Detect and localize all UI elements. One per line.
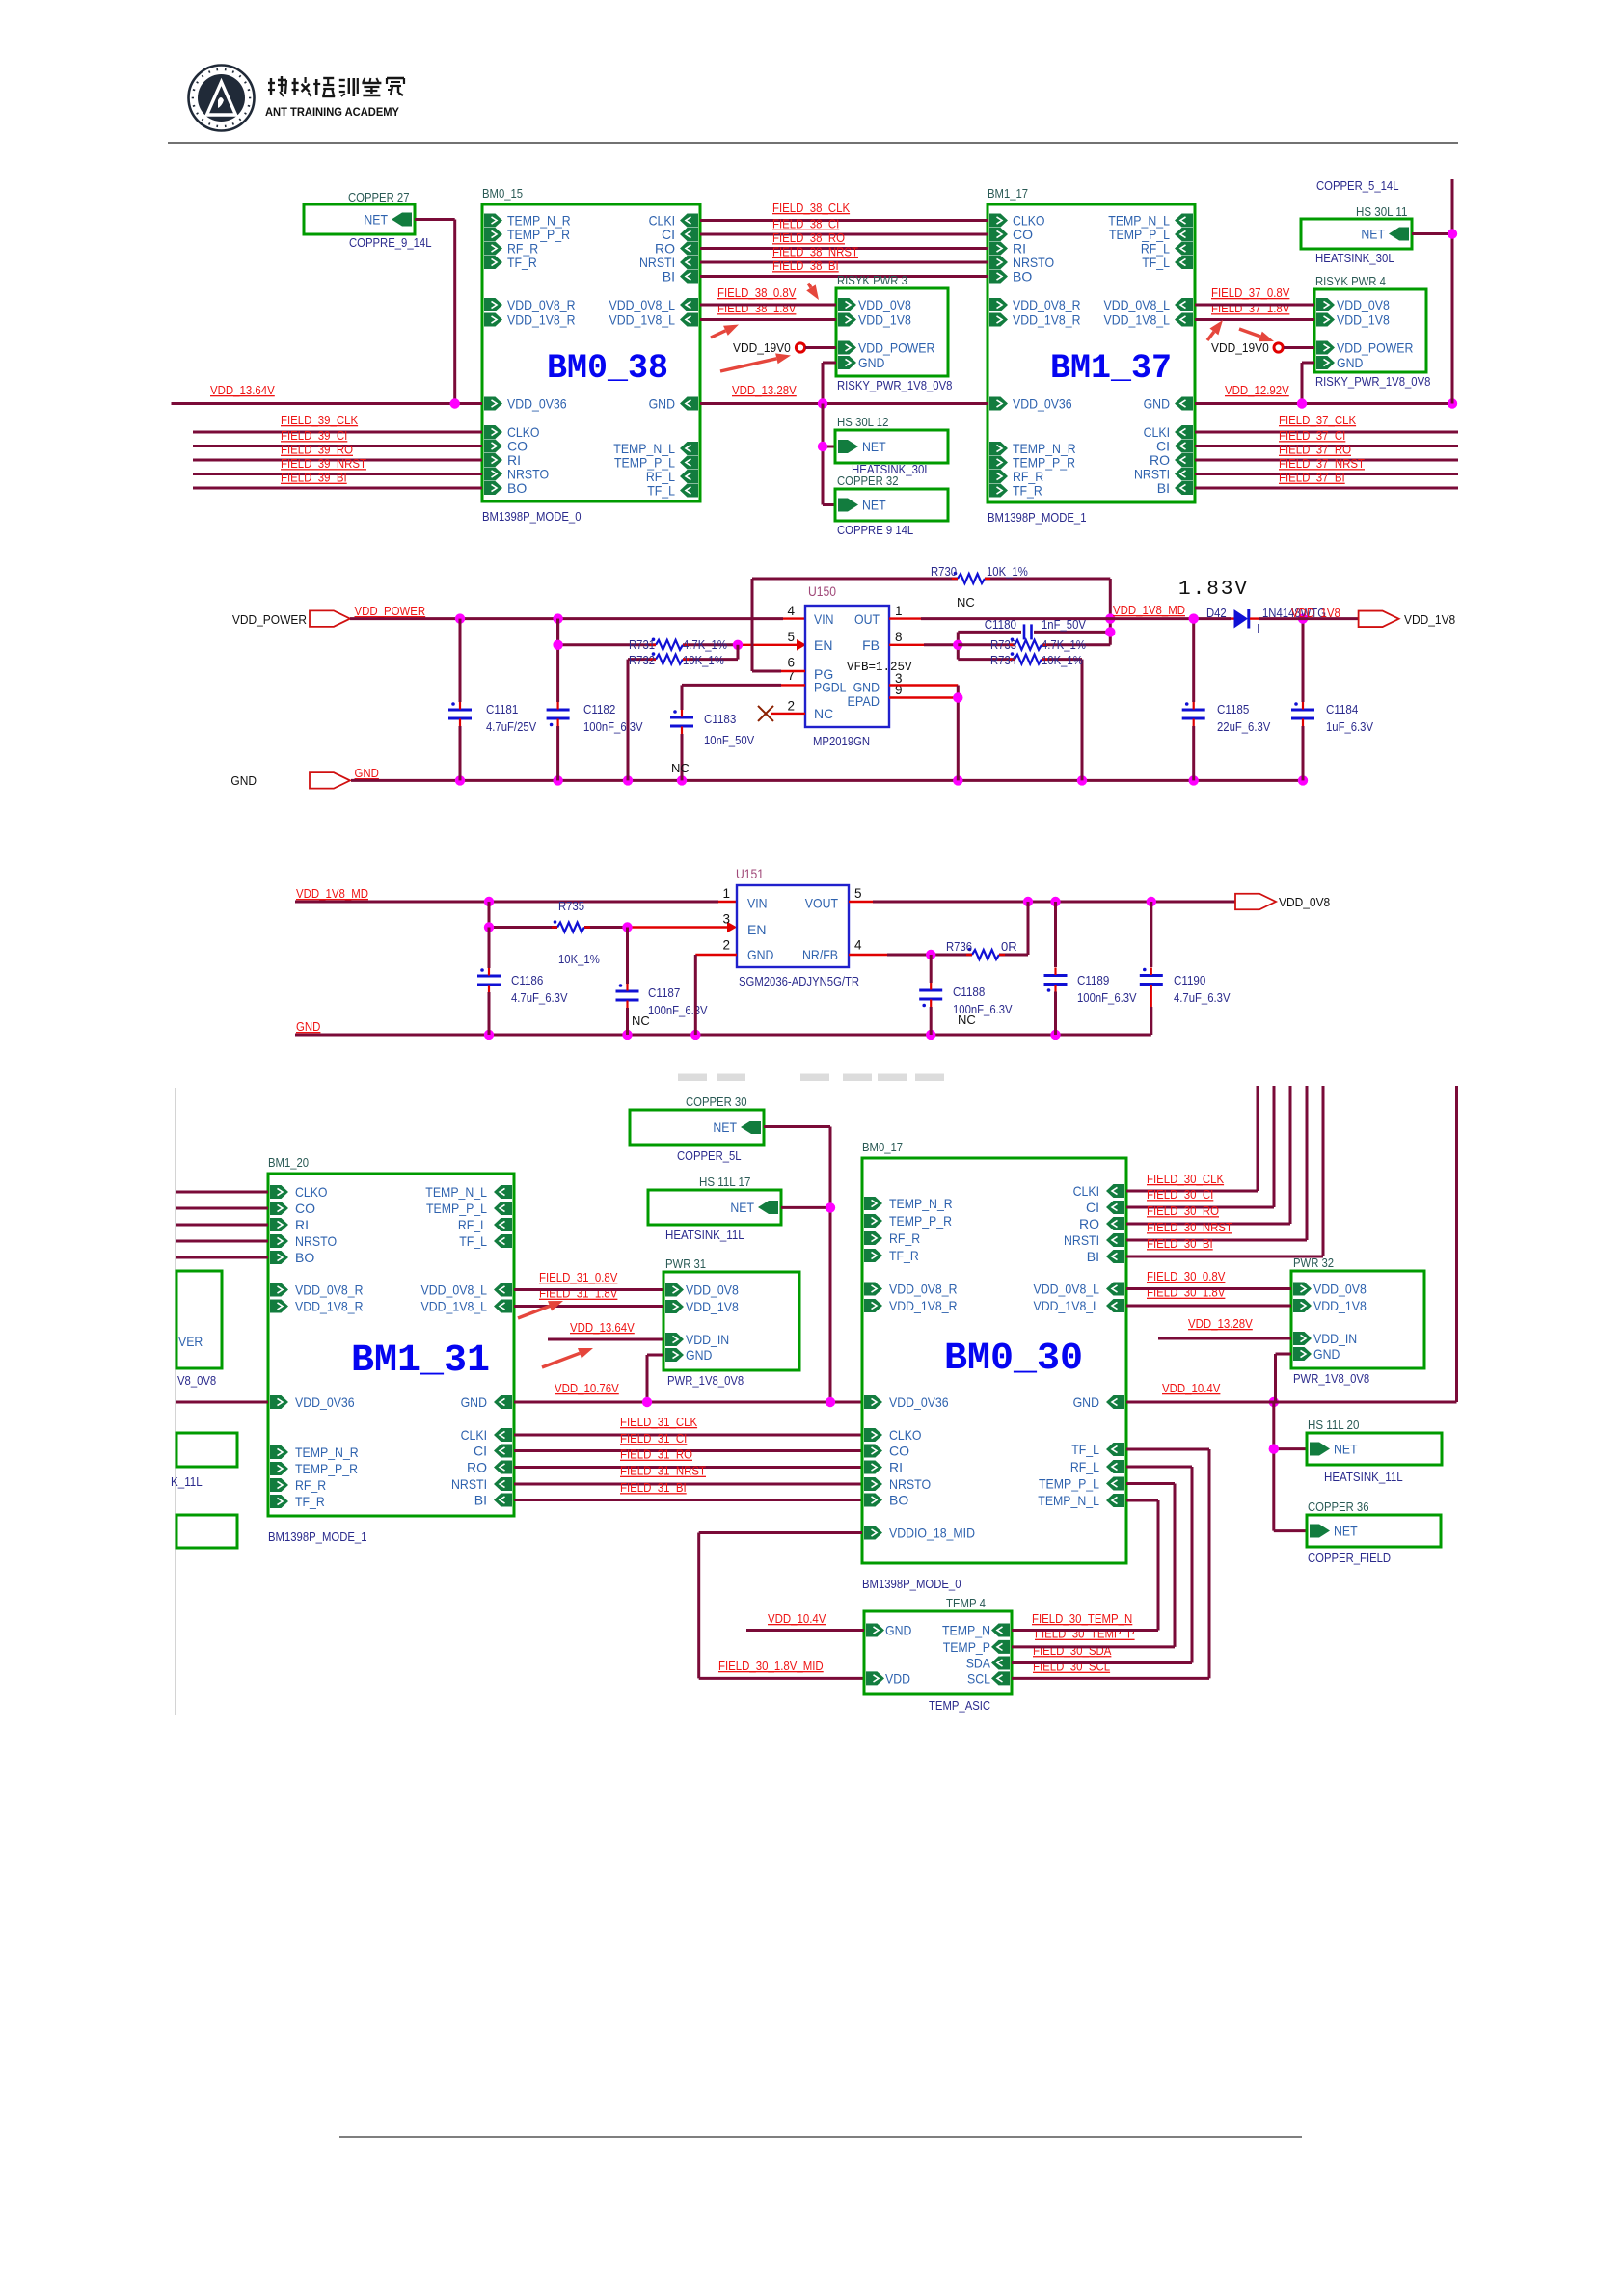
net label FIELD_38_CI	[772, 217, 839, 231]
capacitor C1180 1nF_50V	[958, 617, 1110, 639]
svg-text:1nF_50V: 1nF_50V	[1042, 617, 1086, 632]
svg-text:TEMP_N_L: TEMP_N_L	[425, 1184, 487, 1200]
svg-text:RISKY_PWR_1V8_0V8: RISKY_PWR_1V8_0V8	[837, 378, 952, 392]
net label FIELD_37_CI	[1279, 428, 1345, 443]
svg-text:FIELD_38_RO: FIELD_38_RO	[772, 230, 845, 245]
svg-text:C1187: C1187	[648, 986, 680, 1000]
label COPPER 27	[348, 190, 410, 204]
svg-text:BM1398P_MODE_1: BM1398P_MODE_1	[988, 510, 1087, 525]
svg-text:VDD: VDD	[885, 1671, 910, 1687]
wire FIELD_30_0.8V	[1126, 1287, 1291, 1290]
svg-text:TF_L: TF_L	[1142, 255, 1170, 270]
net label GND	[296, 1019, 320, 1034]
resistor R732 10K_1%	[628, 645, 738, 781]
svg-text:NC: NC	[814, 706, 833, 721]
wire FIELD_30 bus	[1126, 1086, 1307, 1240]
annotation arrow	[518, 1301, 563, 1318]
svg-text:NET: NET	[713, 1120, 737, 1135]
svg-text:HEATSINK_11L: HEATSINK_11L	[1324, 1470, 1403, 1484]
svg-text:VDD_1V8_L: VDD_1V8_L	[1104, 312, 1171, 328]
net label FIELD_39_BI	[281, 471, 347, 485]
wire FIELD_38 bus	[700, 247, 988, 250]
label BM0_15	[482, 186, 523, 201]
svg-text:COPPRE 9 14L: COPPRE 9 14L	[837, 523, 913, 537]
junction	[953, 692, 962, 702]
svg-text:C1181: C1181	[486, 702, 518, 716]
svg-text:VDD_POWER: VDD_POWER	[1337, 340, 1413, 356]
EN input arrow	[727, 922, 737, 933]
svg-text:VDD_IN: VDD_IN	[1313, 1331, 1357, 1346]
svg-text:FIELD_30_CLK: FIELD_30_CLK	[1147, 1172, 1224, 1186]
junction	[455, 775, 465, 785]
connector COPPER_30 (COPPER_5L)	[630, 1110, 764, 1145]
capacitor C1186 4.7uF_6.3V	[477, 928, 568, 1036]
net label FIELD_39_NRST	[281, 456, 366, 471]
label PWR 31	[665, 1256, 706, 1271]
net label VDD_12.92V	[1225, 383, 1289, 397]
BM1_37 pins CLKI/CI/RO/NRSTI/BI	[1134, 424, 1193, 496]
svg-text:NRSTI: NRSTI	[1064, 1232, 1099, 1248]
regulator U150 MP2019GN	[805, 584, 912, 727]
svg-text:HS 30L 12: HS 30L 12	[837, 415, 888, 429]
text BM0_38	[547, 349, 668, 388]
svg-text:VDD_0V36: VDD_0V36	[1013, 396, 1072, 412]
svg-text:VIN: VIN	[814, 611, 834, 627]
svg-text:RI: RI	[295, 1217, 309, 1232]
svg-text:FIELD_30_TEMP_N: FIELD_30_TEMP_N	[1032, 1611, 1132, 1626]
BM1_31 pins VDD_0V8_R/VDD_1V8_R	[270, 1283, 364, 1314]
capacitor C1185 22uF_6.3V	[1182, 619, 1271, 781]
wire FIELD_31_1.8V	[514, 1305, 663, 1308]
svg-text:VDD_13.28V: VDD_13.28V	[1188, 1316, 1253, 1331]
label HS 30L 12	[837, 415, 888, 429]
annotation arrow	[1239, 329, 1274, 341]
svg-text:PWR_1V8_0V8: PWR_1V8_0V8	[1293, 1371, 1369, 1386]
junction	[677, 775, 687, 785]
svg-text:VOUT: VOUT	[805, 896, 839, 911]
junction	[1147, 897, 1156, 906]
svg-text:SCL: SCL	[967, 1670, 990, 1686]
svg-text:C1188: C1188	[953, 985, 985, 999]
junction	[926, 1030, 935, 1040]
wire FIELD_39 bus	[193, 459, 482, 462]
svg-text:CI: CI	[1086, 1200, 1099, 1215]
svg-text:VDD_0V36: VDD_0V36	[889, 1394, 949, 1410]
svg-text:NET: NET	[862, 498, 886, 513]
diode D42 1N4148WTG	[1206, 606, 1326, 635]
svg-text:EN: EN	[814, 637, 832, 653]
svg-text:GND: GND	[296, 1019, 320, 1034]
svg-text:FIELD_31_BI: FIELD_31_BI	[620, 1480, 687, 1495]
BM0_38 pin VDD_0V36	[484, 396, 567, 412]
svg-text:VDD_0V8: VDD_0V8	[1279, 895, 1330, 909]
svg-text:BO: BO	[889, 1493, 908, 1508]
svg-text:VDD_1V8_R: VDD_1V8_R	[1013, 312, 1081, 328]
svg-text:SGM2036-ADJYN5G/TR: SGM2036-ADJYN5G/TR	[739, 974, 859, 988]
wire OUT net	[889, 617, 1231, 619]
BM0_30 pins CLKI/CI/RO/NRSTI/BI	[1064, 1183, 1124, 1264]
wire PWR_32 GND	[1276, 1354, 1292, 1402]
net label VDD_13.64V	[570, 1320, 635, 1335]
wire FIELD_37_0.8V	[1195, 304, 1314, 307]
svg-text:FIELD_30_SDA: FIELD_30_SDA	[1033, 1643, 1112, 1658]
svg-text:BM0_38: BM0_38	[547, 349, 668, 388]
BM1_31 pin VDD_0V36	[270, 1394, 355, 1410]
svg-text:VDD_POWER: VDD_POWER	[355, 604, 426, 618]
junction	[953, 640, 962, 650]
BM1_31 pins TEMP_N_L/TEMP_P_L/RF_L/TF_L	[425, 1184, 512, 1249]
label TEMP 4	[946, 1596, 986, 1610]
junction	[826, 1202, 835, 1212]
BM0_38 pin GND	[649, 396, 698, 412]
resistor R733 4.7K_1%	[958, 637, 1110, 652]
svg-text:VDD_POWER: VDD_POWER	[232, 612, 307, 627]
junction	[818, 442, 827, 451]
label BM1398P_MODE_1	[988, 510, 1087, 525]
svg-text:CO: CO	[889, 1444, 909, 1459]
BM0_30 pins TF_L/RF_L/TEMP_P_L/TEMP_N_L	[1038, 1442, 1124, 1508]
wire to HS_11L_20/COPPER_36	[1274, 1402, 1307, 1531]
net label FIELD_39_CI	[281, 428, 347, 443]
wire FIELD_38 bus	[700, 275, 988, 278]
wire FIELD_38 bus	[700, 219, 988, 222]
svg-text:BM1_37: BM1_37	[1050, 349, 1172, 388]
junction	[733, 640, 743, 650]
svg-text:TF_R: TF_R	[295, 1494, 325, 1509]
svg-text:FIELD_30_TEMP_P: FIELD_30_TEMP_P	[1035, 1627, 1135, 1641]
svg-text:TF_R: TF_R	[507, 255, 537, 270]
svg-text:GND: GND	[686, 1347, 712, 1363]
junction	[953, 775, 962, 785]
svg-text:BM1398P_MODE_0: BM1398P_MODE_0	[482, 509, 582, 524]
label BM1398P_MODE_1	[268, 1529, 367, 1544]
junction	[484, 1030, 494, 1040]
net label FIELD_30_BI	[1147, 1236, 1213, 1251]
svg-text:U151: U151	[736, 867, 764, 881]
junction	[1189, 613, 1199, 623]
svg-text:VER: VER	[178, 1334, 203, 1349]
BM1_31 pins VDD_0V8_L/VDD_1V8_L	[421, 1283, 513, 1314]
svg-text:GND: GND	[885, 1623, 911, 1638]
label RISYK PWR 3	[837, 273, 907, 287]
logo ANT Training Academy seal	[189, 66, 255, 131]
svg-text:VDD_1V8_L: VDD_1V8_L	[609, 312, 676, 328]
svg-text:GND: GND	[1144, 396, 1170, 412]
svg-text:HEATSINK_30L: HEATSINK_30L	[1315, 251, 1394, 265]
svg-text:FIELD_38_1.8V: FIELD_38_1.8V	[717, 301, 797, 315]
svg-text:TEMP_ASIC: TEMP_ASIC	[929, 1698, 990, 1713]
net label FIELD_31_RO	[620, 1447, 692, 1462]
svg-text:RF_L: RF_L	[1070, 1459, 1099, 1474]
wire FIELD_38_1.8V	[700, 318, 836, 321]
wire VDD_19V0 to VDD_POWER	[1284, 346, 1314, 349]
svg-text:FIELD_31_NRST: FIELD_31_NRST	[620, 1464, 706, 1478]
EN input arrow	[797, 639, 806, 651]
svg-text:VDD_0V8: VDD_0V8	[686, 1283, 739, 1298]
svg-text:3: 3	[722, 912, 730, 927]
label RISKY_PWR_1V8_0V8	[837, 378, 952, 392]
svg-text:FB: FB	[862, 637, 880, 653]
svg-text:VDD_POWER: VDD_POWER	[858, 340, 934, 356]
svg-text:C1189: C1189	[1077, 973, 1109, 987]
wire FIELD_39 bus	[193, 445, 482, 447]
PWR_31 pins VDD_0V8/VDD_1V8/VDD_IN/GND	[665, 1283, 739, 1364]
svg-text:VDD_1V8_MD: VDD_1V8_MD	[296, 886, 368, 901]
svg-text:BM1_20: BM1_20	[268, 1155, 309, 1170]
junction	[553, 640, 562, 650]
capacitor C1184 1uF_6.3V	[1291, 619, 1373, 781]
wire VDD_13.64V to VDD_IN	[548, 1338, 663, 1341]
svg-text:VDD_1V8: VDD_1V8	[858, 312, 911, 328]
IC block BM1_31 outline (BM1398P_MODE_1)	[268, 1174, 514, 1516]
svg-text:VDD_0V8: VDD_0V8	[1313, 1282, 1367, 1297]
connector HS_11L_17 (HEATSINK_11L)	[648, 1190, 781, 1225]
junction	[1189, 775, 1199, 785]
wire FIELD_38_0.8V	[700, 304, 836, 307]
IC block BM1_37 outline (BM1398P_MODE_1)	[988, 204, 1195, 502]
net label VDD_13.28V	[732, 383, 797, 397]
capacitor C1182 100nF_6.3V	[547, 619, 643, 781]
svg-text:BO: BO	[1013, 269, 1032, 284]
svg-text:FIELD_37_CLK: FIELD_37_CLK	[1279, 413, 1356, 427]
label PWR_1V8_0V8	[1293, 1371, 1369, 1386]
junction	[1297, 398, 1307, 408]
junction	[622, 1030, 632, 1040]
resistor R730 10K_1%	[752, 564, 1110, 645]
svg-text:RI: RI	[889, 1460, 903, 1475]
svg-text:NC: NC	[957, 595, 975, 609]
wire HS_30L_11 NET	[1412, 232, 1452, 235]
wire FIELD_37 bus	[1195, 487, 1458, 490]
junction	[1077, 775, 1087, 785]
svg-text:GND: GND	[858, 355, 884, 370]
svg-text:GND: GND	[1337, 355, 1363, 370]
svg-text:CLKI: CLKI	[1073, 1183, 1099, 1199]
wire FIELD_30 bus	[1126, 1086, 1323, 1256]
BM0_38 pins CLKO/CO/RI/NRSTO/BO	[484, 424, 549, 496]
svg-text:R736: R736	[946, 939, 972, 954]
ground port GND	[230, 772, 350, 789]
BM1_37 pins TEMP_N_L/TEMP_P_L/RF_L/TF_L	[1108, 213, 1193, 271]
label HEATSINK_30L	[1315, 251, 1394, 265]
svg-text:TEMP_N_R: TEMP_N_R	[889, 1196, 953, 1211]
svg-text:10K_1%: 10K_1%	[558, 952, 600, 966]
BM1_31 pins CLKO/CO/RI/NRSTO/BO	[270, 1184, 337, 1265]
svg-text:VDD_10.76V: VDD_10.76V	[555, 1381, 619, 1395]
svg-text:FIELD_37_RO: FIELD_37_RO	[1279, 443, 1351, 457]
annotation arrow	[1207, 320, 1223, 340]
svg-text:VDD_12.92V: VDD_12.92V	[1225, 383, 1289, 397]
svg-text:MP2019GN: MP2019GN	[813, 734, 870, 748]
svg-text:HEATSINK_11L: HEATSINK_11L	[665, 1228, 744, 1242]
svg-text:VDD_0V36: VDD_0V36	[507, 396, 567, 412]
wire FIELD_37_1.8V	[1195, 318, 1314, 321]
net label FIELD_30_CLK	[1147, 1172, 1224, 1186]
wire EN net	[489, 902, 728, 928]
wire COPPER_27 NET to VDD_13.64V net	[415, 220, 455, 404]
net label FIELD_30_TEMP_N	[1032, 1611, 1132, 1626]
net label FIELD_37_CLK	[1279, 413, 1356, 427]
resistor R734 10K_1%	[958, 652, 1083, 780]
net label VDD_10.76V	[555, 1381, 619, 1395]
svg-text:RISKY_PWR_1V8_0V8: RISKY_PWR_1V8_0V8	[1315, 374, 1430, 389]
wire FIELD_31 bus	[514, 1499, 862, 1501]
junction	[1023, 897, 1033, 906]
svg-text:5: 5	[787, 630, 795, 644]
wire VDD_10.4V to TEMP GND	[746, 1629, 864, 1632]
svg-text:BI: BI	[1157, 480, 1170, 496]
svg-text:TF_L: TF_L	[1071, 1442, 1099, 1457]
svg-text:NC: NC	[671, 761, 690, 775]
svg-text:FIELD_30_0.8V: FIELD_30_0.8V	[1147, 1269, 1226, 1283]
svg-text:FIELD_39_BI: FIELD_39_BI	[281, 471, 347, 485]
BM0_38 pins VDD_0V8_R/VDD_1V8_R	[484, 297, 576, 328]
svg-text:FIELD_39_CI: FIELD_39_CI	[281, 428, 347, 443]
svg-text:BM1_31: BM1_31	[351, 1339, 490, 1383]
svg-text:NRSTI: NRSTI	[451, 1476, 487, 1492]
title text (Chinese calligraphy)	[268, 76, 404, 96]
svg-text:BM0_30: BM0_30	[944, 1337, 1083, 1381]
svg-text:C1186: C1186	[511, 973, 543, 987]
PWR_32 pins VDD_0V8/VDD_1V8/VDD_IN/GND	[1293, 1282, 1367, 1363]
svg-text:BI: BI	[1087, 1249, 1099, 1264]
net label FIELD_30_NRST	[1147, 1220, 1232, 1234]
svg-text:VDD_0V8_L: VDD_0V8_L	[609, 297, 676, 312]
junction	[484, 922, 494, 932]
wire FIELD_37 bus	[1195, 473, 1458, 475]
junction	[455, 613, 465, 623]
junction	[826, 1397, 835, 1407]
svg-text:NRSTO: NRSTO	[889, 1476, 931, 1492]
label HS 11L 20	[1308, 1418, 1359, 1432]
resistor R736 0R	[946, 939, 1017, 959]
svg-text:VDD_1V8_L: VDD_1V8_L	[421, 1299, 488, 1314]
svg-text:100nF_6.3V: 100nF_6.3V	[1077, 990, 1137, 1005]
svg-text:RF_L: RF_L	[458, 1217, 487, 1232]
label RISKY_PWR_1V8_0V8	[1315, 374, 1430, 389]
connector PWR_32 (PWR_1V8_0V8)	[1291, 1271, 1424, 1368]
svg-text:RF_R: RF_R	[295, 1477, 326, 1493]
junction	[1050, 1030, 1060, 1040]
U151 pin numbers	[722, 886, 862, 953]
svg-text:4: 4	[787, 604, 795, 618]
svg-text:GND: GND	[355, 766, 379, 780]
net label FIELD_30_RO	[1147, 1203, 1219, 1218]
svg-text:TEMP_P_R: TEMP_P_R	[295, 1461, 358, 1476]
BM0_38 pins TEMP_N_L/TEMP_P_L/RF_L/TF_L	[613, 441, 698, 499]
svg-text:CLKO: CLKO	[889, 1427, 922, 1443]
svg-text:ANT TRAINING ACADEMY: ANT TRAINING ACADEMY	[265, 106, 399, 119]
BM0_30 pins VDD_0V8_R/VDD_1V8_R	[864, 1282, 958, 1314]
wire stubs into BM1_31	[176, 1192, 268, 1257]
net label FIELD_31_BI	[620, 1480, 687, 1495]
junction	[623, 775, 633, 785]
label COPPER_FIELD	[1308, 1551, 1391, 1565]
wire FIELD_39 bus	[193, 431, 482, 434]
junction	[1448, 229, 1457, 238]
net label FIELD_38_1.8V	[717, 301, 797, 315]
svg-text:VDD_1V8: VDD_1V8	[1404, 612, 1455, 627]
label HEATSINK_11L	[665, 1228, 744, 1242]
label RISYK PWR 4	[1315, 274, 1386, 288]
BM0_38 pins TEMP_N_R/TEMP_P_R/RF_R/TF_R	[484, 213, 571, 271]
svg-text:TEMP_N: TEMP_N	[942, 1623, 990, 1638]
svg-text:VDD_0V8_L: VDD_0V8_L	[1104, 297, 1171, 312]
IC block BM0_38 outline (BM1398P_MODE_0)	[482, 204, 700, 501]
RISYK_PWR_3 pins VDD_0V8/VDD_1V8/VDD_POWER/GND	[838, 297, 934, 370]
capacitor C1181 4.7uF/25V	[448, 619, 536, 781]
wire VDD_12.92V (BM1_37 GND)	[1195, 402, 1452, 405]
svg-text:NET: NET	[364, 212, 388, 228]
svg-text:TF_L: TF_L	[647, 483, 675, 499]
BM1_37 pins TEMP_N_R/TEMP_P_R/RF_R/TF_R	[989, 441, 1076, 499]
text BM1_31	[351, 1339, 490, 1383]
svg-text:VDD_1V8_R: VDD_1V8_R	[889, 1298, 958, 1313]
svg-text:VDD_1V8: VDD_1V8	[1313, 1298, 1367, 1313]
svg-text:BI: BI	[474, 1493, 487, 1508]
net label FIELD_30_SDA	[1033, 1643, 1112, 1658]
svg-text:VDD_0V8_R: VDD_0V8_R	[295, 1283, 364, 1298]
voltage annotation 1.83V	[1178, 579, 1249, 601]
wire U150 GND/EPAD	[889, 686, 958, 781]
label MP2019GN	[813, 734, 870, 748]
svg-text:GND: GND	[649, 396, 675, 412]
svg-text:2: 2	[722, 938, 730, 953]
wire VDD_13.28V to VDD_IN	[1158, 1337, 1291, 1340]
svg-text:0R: 0R	[1001, 939, 1017, 954]
page edge line	[175, 1088, 176, 1715]
wire FIELD_38 bus	[700, 233, 988, 236]
label BM1398P_MODE_0	[482, 509, 582, 524]
svg-text:SDA: SDA	[966, 1656, 991, 1671]
svg-text:TF_L: TF_L	[459, 1233, 487, 1249]
svg-text:V8_0V8: V8_0V8	[177, 1373, 216, 1388]
net label FIELD_31_0.8V	[539, 1270, 618, 1284]
svg-text:NRSTO: NRSTO	[295, 1233, 337, 1249]
resistor R731 4.7K_1%	[629, 637, 727, 652]
net label VDD_10.4V	[1162, 1381, 1221, 1395]
svg-text:GND: GND	[1313, 1346, 1340, 1362]
svg-text:4.7uF_6.3V: 4.7uF_6.3V	[511, 990, 568, 1005]
svg-text:GND: GND	[747, 947, 773, 962]
wire SCL	[1012, 1677, 1209, 1680]
svg-text:FIELD_31_1.8V: FIELD_31_1.8V	[539, 1286, 618, 1301]
net label FIELD_30_1.8V_MID	[718, 1659, 824, 1673]
capacitor C1188 100nF_6.3V	[919, 955, 1013, 1035]
BM1_31 pin GND	[461, 1394, 512, 1410]
junction	[926, 950, 935, 959]
capacitor C1187 100nF_6.3V	[616, 928, 708, 1036]
BM1_37 pins VDD_0V8_L/VDD_1V8_L	[1104, 297, 1194, 328]
svg-text:TEMP_P: TEMP_P	[943, 1639, 990, 1655]
svg-text:FIELD_39_NRST: FIELD_39_NRST	[281, 456, 366, 471]
svg-text:COPPER_5L: COPPER_5L	[677, 1148, 742, 1163]
svg-text:CLKO: CLKO	[295, 1184, 328, 1200]
wire VDD_POWER net	[350, 617, 805, 620]
wire EN net	[558, 619, 798, 645]
svg-text:FIELD_38_NRST: FIELD_38_NRST	[772, 245, 858, 259]
wire VDD_10.76V	[514, 1401, 862, 1404]
junction	[553, 775, 562, 785]
svg-text:VDD_0V36: VDD_0V36	[295, 1394, 355, 1410]
svg-text:FIELD_30_SCL: FIELD_30_SCL	[1033, 1660, 1110, 1674]
BM0_38 pins VDD_0V8_L/VDD_1V8_L	[609, 297, 699, 328]
net label FIELD_31_1.8V	[539, 1286, 618, 1301]
svg-text:1: 1	[895, 604, 903, 618]
svg-text:FIELD_30_1.8V: FIELD_30_1.8V	[1147, 1285, 1226, 1300]
wire PGDL net	[682, 684, 805, 687]
annotation arrow	[711, 325, 739, 338]
